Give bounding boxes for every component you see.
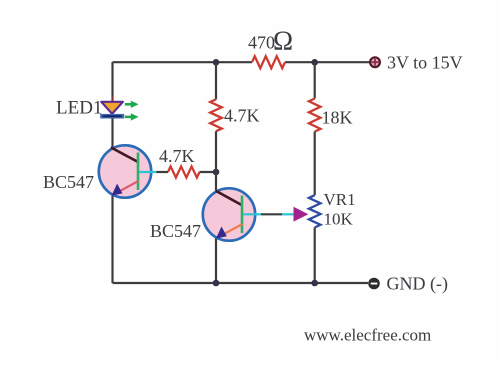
- transistor Q2 emitter line: [222, 224, 243, 235]
- svg-text:470: 470: [248, 33, 275, 53]
- junction bottom right: [311, 280, 318, 287]
- wire top rail right segment: [285, 61, 370, 63]
- transistor Q1 BC547 body: [99, 145, 151, 197]
- wire Q1 base to resistor: [157, 171, 169, 173]
- resistor 4.7K vertical: [210, 99, 222, 131]
- wire bottom rail: [113, 282, 369, 284]
- wire right middle: [314, 132, 316, 196]
- junction middle: [213, 169, 220, 176]
- LED1 light arrow upper: [125, 101, 139, 108]
- svg-text:3V to 15V: 3V to 15V: [387, 53, 463, 73]
- wire Q2 base cyan segment inner: [243, 213, 261, 215]
- wire left (LED to Q1): [111, 118, 113, 148]
- VR1 wiper arrowhead: [294, 207, 309, 222]
- wire Q2 base cyan segment outer: [282, 213, 295, 215]
- transistor Q2 BC547 body: [203, 188, 255, 240]
- wire red stub above LED: [111, 97, 113, 102]
- svg-text:BC547: BC547: [150, 221, 201, 241]
- wire resistor to middle branch: [200, 171, 217, 173]
- resistor 470 ohm: [252, 56, 285, 68]
- svg-text:4.7K: 4.7K: [159, 146, 195, 166]
- wire middle upper: [215, 62, 217, 99]
- junction top middle: [213, 59, 220, 66]
- wire middle (resistor to Q2): [215, 131, 217, 191]
- potentiometer VR1 10K: [309, 195, 321, 227]
- transistor Q2 base bar: [241, 196, 244, 234]
- wire top rail left segment: [113, 61, 253, 63]
- wire left upper (top rail to LED): [111, 62, 113, 97]
- wire Q2 base gray segment: [261, 213, 282, 215]
- terminal GND: [368, 278, 380, 290]
- svg-text:VR1: VR1: [324, 190, 356, 209]
- svg-text:www.elecfree.com: www.elecfree.com: [304, 326, 431, 345]
- junction top right: [311, 59, 318, 66]
- svg-text:10K: 10K: [324, 210, 354, 229]
- transistor Q1 collector line: [111, 147, 139, 162]
- wire middle lower (Q2 to bottom rail): [215, 238, 217, 283]
- svg-text:4.7K: 4.7K: [224, 106, 260, 126]
- transistor Q1 base bar: [137, 153, 140, 191]
- terminal +V: [370, 57, 380, 67]
- wire right upper: [314, 62, 316, 99]
- wire right lower: [314, 228, 316, 284]
- transistor Q1 emitter arrowhead: [112, 184, 123, 196]
- junction bottom middle: [213, 280, 220, 287]
- svg-text:GND (-): GND (-): [387, 274, 448, 295]
- resistor 18K: [309, 99, 321, 132]
- LED1 cathode bar: [100, 114, 124, 119]
- transistor Q1 base lead cyan: [139, 171, 158, 173]
- svg-text:BC547: BC547: [43, 172, 94, 192]
- svg-text:LED1: LED1: [56, 98, 102, 119]
- LED1 light arrow lower: [125, 113, 139, 120]
- LED1 diode triangle: [101, 102, 123, 114]
- wire left lower (Q1 to bottom rail): [111, 195, 113, 283]
- transistor Q2 collector line: [216, 191, 243, 206]
- transistor Q1 emitter line: [118, 181, 139, 192]
- svg-text:Ω: Ω: [273, 26, 293, 56]
- svg-text:18K: 18K: [322, 108, 353, 128]
- resistor 4.7K horizontal: [168, 166, 200, 177]
- transistor Q2 emitter arrowhead: [216, 227, 227, 239]
